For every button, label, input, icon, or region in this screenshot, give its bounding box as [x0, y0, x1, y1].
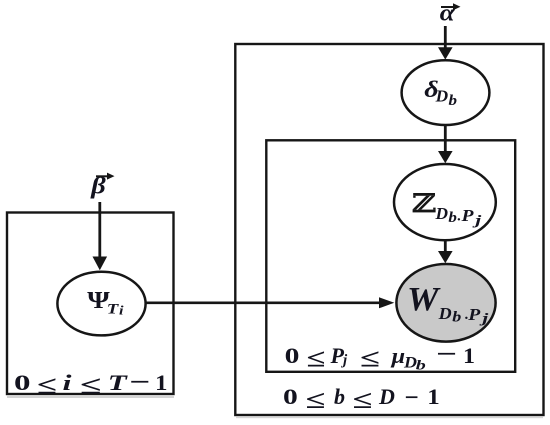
jpeg ghost under left plate [7, 396, 174, 398]
svg-text:−: − [129, 369, 150, 396]
svg-text:b: b [449, 93, 458, 109]
svg-text:T: T [107, 302, 120, 318]
svg-text:b: b [416, 359, 426, 374]
svg-text:≤: ≤ [307, 346, 326, 373]
label Psi_Ti [87, 286, 124, 317]
jpeg ghost under outer plate [236, 417, 543, 418]
arrow Z -> W [438, 241, 453, 264]
svg-text:0: 0 [285, 343, 300, 368]
label Z_Db,Pj (double-struck Z drawn as path) [412, 193, 481, 229]
svg-text:i: i [119, 303, 124, 318]
svg-text:j: j [341, 353, 348, 369]
svg-text:μ: μ [390, 343, 405, 368]
plate label 0<=i<=T-1 [14, 369, 168, 400]
plate label 0<=Pj<=mu_Db-1 [285, 341, 475, 374]
node delta_Db (circle) [402, 60, 490, 125]
svg-text:≤: ≤ [80, 373, 102, 400]
svg-text:b: b [452, 310, 462, 326]
label delta_Db [424, 76, 457, 109]
svg-text:1: 1 [427, 384, 440, 409]
arrow Psi -> W [146, 297, 395, 308]
arrow delta -> Z [438, 126, 453, 163]
node W_Db,Pj (shaded circle) [396, 264, 495, 342]
svg-text:0: 0 [283, 384, 298, 409]
arrow beta -> Psi [93, 202, 108, 270]
svg-text:D: D [378, 384, 395, 409]
svg-text:1: 1 [155, 370, 168, 395]
plate label 0<=b<=D-1 [283, 384, 440, 414]
svg-text:0: 0 [14, 370, 31, 395]
svg-text:W: W [407, 281, 441, 318]
plate: positions (inner right rectangle) [266, 140, 515, 371]
svg-text:−: − [405, 385, 419, 412]
plate: topics (left rectangle) [7, 213, 174, 395]
svg-text:P: P [467, 305, 481, 324]
svg-text:P: P [460, 206, 474, 225]
svg-text:≤: ≤ [37, 373, 57, 400]
label W_Db,Pj [407, 281, 488, 327]
svg-text:≤: ≤ [353, 387, 373, 414]
svg-text:−: − [436, 341, 457, 368]
label alpha vector (top) [440, 0, 461, 26]
svg-text:D: D [435, 87, 449, 106]
label beta vector [90, 172, 114, 199]
svg-text:D: D [434, 204, 448, 223]
svg-text:≤: ≤ [360, 346, 380, 373]
node Psi_Ti (circle) [57, 272, 145, 336]
arrow alpha -> delta [438, 26, 453, 60]
svg-text:≤: ≤ [306, 387, 326, 414]
svg-text:D: D [438, 304, 452, 323]
plate: blocks (outer right rectangle) [235, 44, 543, 415]
svg-text:T: T [108, 370, 129, 395]
svg-text:.: . [457, 209, 461, 225]
svg-text:b: b [334, 384, 345, 409]
svg-text:i: i [63, 370, 73, 395]
svg-text:1: 1 [463, 343, 475, 368]
node Z_Db,Pj (circle) [394, 164, 496, 240]
